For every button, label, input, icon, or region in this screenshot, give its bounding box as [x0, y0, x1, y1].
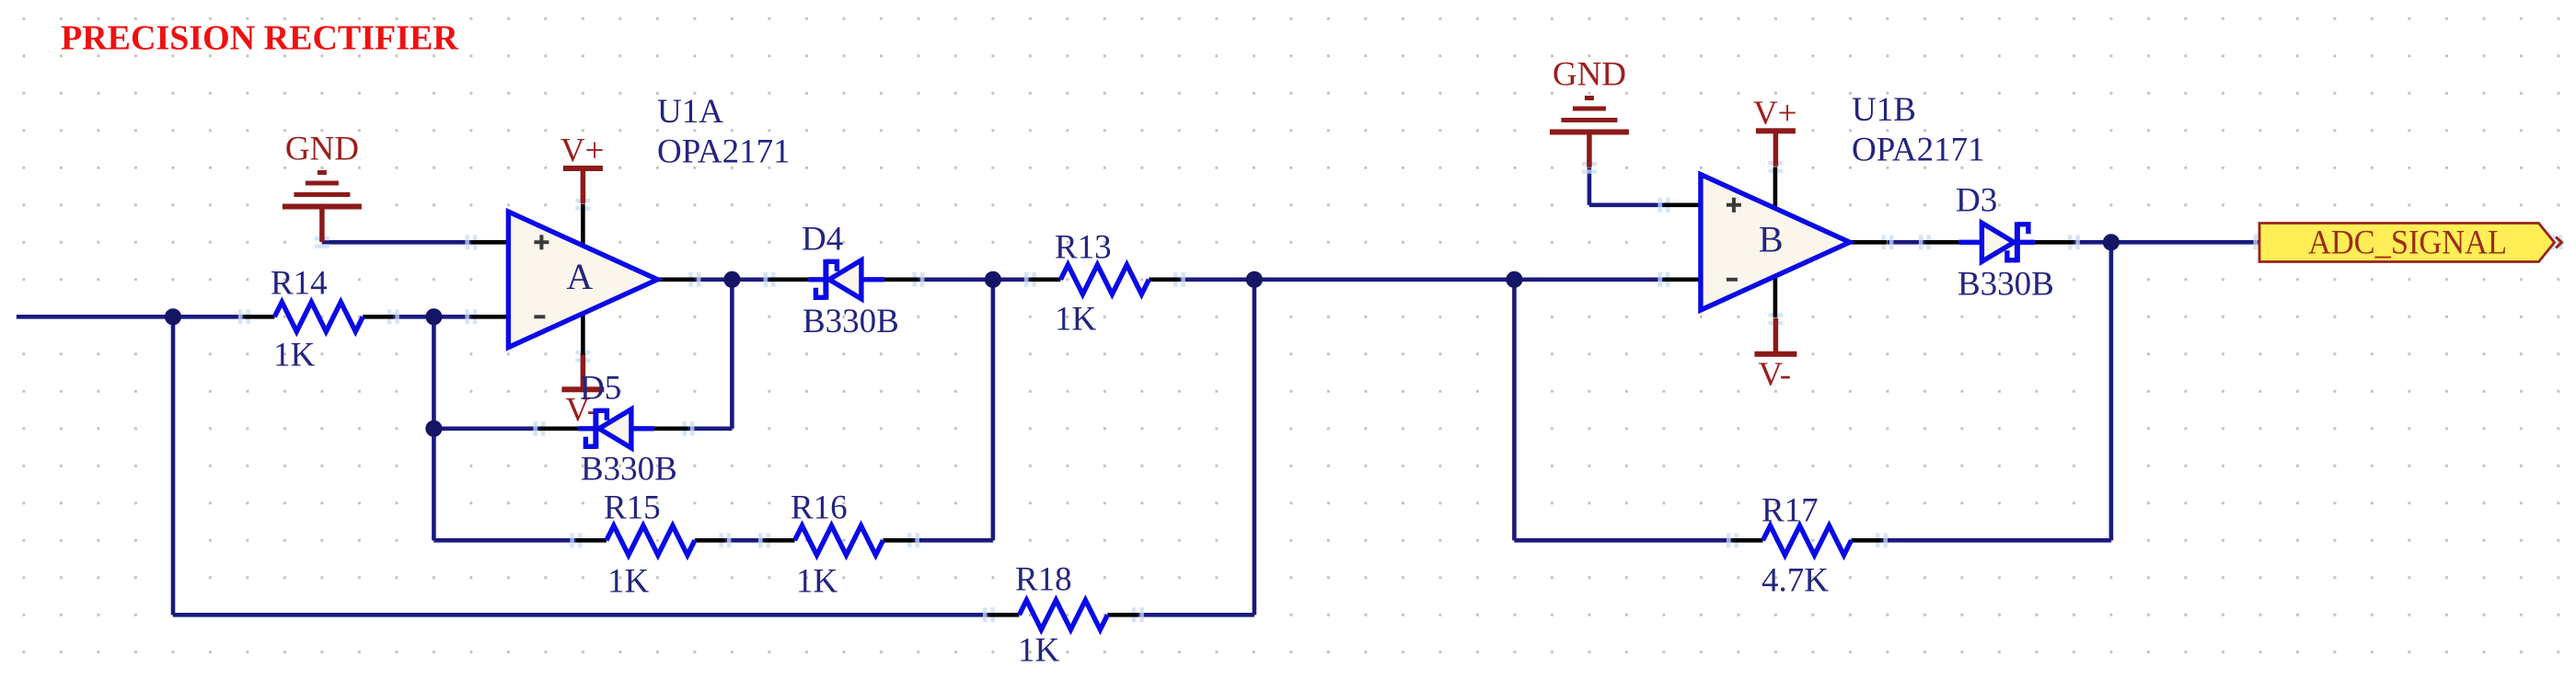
op-amp U1B	[1663, 167, 1887, 318]
wire R18 to riser	[1138, 613, 1254, 617]
wire GND2 vertical drop	[1588, 167, 1592, 205]
wire D5 node vertical to U1A output node	[730, 280, 734, 429]
svg-text:D3: D3	[1956, 182, 1997, 220]
power port V+ (U1A)	[563, 166, 603, 204]
wire input net to R14	[17, 315, 245, 319]
resistor R16	[765, 525, 914, 555]
svg-text:B: B	[1759, 218, 1784, 259]
junction input node	[165, 308, 181, 325]
svg-text:R18: R18	[1015, 561, 1072, 599]
svg-text:4.7K: 4.7K	[1762, 562, 1829, 600]
resistor R18	[988, 600, 1138, 629]
svg-text:U1A: U1A	[657, 93, 723, 131]
wire R17 left vertical	[1512, 280, 1517, 541]
svg-text:R17: R17	[1762, 492, 1819, 530]
pin hotspot marks	[238, 161, 2563, 622]
svg-text:R16: R16	[791, 489, 848, 527]
wire U1B output to D3	[1888, 240, 1925, 245]
svg-text:R13: R13	[1055, 229, 1112, 267]
svg-text:V+: V+	[560, 132, 605, 170]
svg-text:B330B: B330B	[581, 451, 677, 489]
junction ADC output node	[2103, 234, 2120, 250]
junction R18 feedback node	[1246, 271, 1263, 288]
port arrow tip	[2556, 237, 2562, 248]
junction inverting node U1A	[425, 308, 442, 325]
svg-text:1K: 1K	[273, 337, 316, 374]
junction node after D4	[985, 271, 1001, 288]
wire D4 to R13	[918, 277, 1031, 282]
wire inverting node to D5 cathode	[433, 426, 539, 431]
wire R17 rail right segment	[1882, 538, 2111, 543]
resistor R17	[1733, 525, 1882, 555]
wire R15 to R16	[725, 538, 765, 543]
svg-text:1K: 1K	[796, 563, 838, 601]
svg-text:1K: 1K	[1018, 632, 1060, 670]
power port V- (U1A)	[561, 353, 604, 392]
wire R13 to inverting input U1B	[1179, 277, 1664, 282]
op-amp U1A	[471, 204, 695, 355]
svg-text:A: A	[566, 256, 593, 297]
svg-text:B330B: B330B	[1958, 266, 2054, 304]
svg-text:GND: GND	[285, 131, 359, 168]
svg-text:1K: 1K	[1055, 301, 1097, 339]
wire U1A output to D4	[695, 277, 769, 282]
svg-text:B330B: B330B	[803, 303, 899, 340]
wire input node vertical to bottom rail	[171, 316, 176, 615]
svg-text:OPA2171: OPA2171	[657, 133, 791, 171]
wire D3 to ADC_SIGNAL port	[2074, 240, 2259, 245]
resistor R14	[244, 302, 393, 331]
diode D3 (Schottky)	[1924, 222, 2074, 262]
wire bottom rail to R18	[173, 613, 988, 617]
wire node after D4 vertical to R15/R16 rail	[991, 280, 996, 541]
svg-text:R14: R14	[271, 265, 328, 303]
port ADC_SIGNAL	[2259, 224, 2555, 262]
junction U1A output node	[723, 271, 740, 288]
resistor R13	[1030, 265, 1179, 294]
svg-text:R15: R15	[604, 489, 661, 527]
wire inverting node vertical down	[432, 316, 436, 540]
wire R15 rail left segment	[433, 538, 576, 543]
wire D5 to output node horizontal	[688, 426, 733, 431]
resistor R15	[576, 525, 725, 555]
wire R14 to inverting input U1A	[393, 315, 471, 319]
power port GND (left)	[283, 170, 362, 242]
wire R17 right vertical to output node	[2109, 242, 2114, 540]
power port V+ (U1B)	[1756, 128, 1796, 167]
svg-text:D5: D5	[580, 370, 621, 408]
power port V- (U1B)	[1754, 318, 1796, 357]
svg-text:PRECISION RECTIFIER: PRECISION RECTIFIER	[61, 19, 458, 58]
svg-text:U1B: U1B	[1852, 91, 1916, 129]
wire GND2 to non-inverting input U1B	[1589, 203, 1664, 208]
power port GND (right)	[1550, 96, 1629, 167]
svg-text:ADC_SIGNAL: ADC_SIGNAL	[2308, 223, 2507, 260]
junction R17 tap node	[1506, 271, 1522, 288]
svg-text:D4: D4	[802, 221, 843, 259]
svg-text:OPA2171: OPA2171	[1852, 132, 1985, 169]
wire R16 to vertical riser	[914, 538, 993, 543]
svg-text:V+: V+	[1753, 95, 1797, 132]
svg-text:V-: V-	[1758, 356, 1791, 394]
diode D5 (Schottky)	[539, 409, 688, 449]
wire GND to non-inverting input U1A	[322, 240, 471, 245]
diode D4 (Schottky)	[769, 259, 918, 300]
svg-text:GND: GND	[1553, 56, 1626, 94]
svg-text:1K: 1K	[607, 563, 650, 601]
junction D5 branch node	[425, 420, 442, 437]
wire R17 rail left segment	[1514, 538, 1732, 543]
wire R18 node vertical	[1253, 280, 1257, 616]
